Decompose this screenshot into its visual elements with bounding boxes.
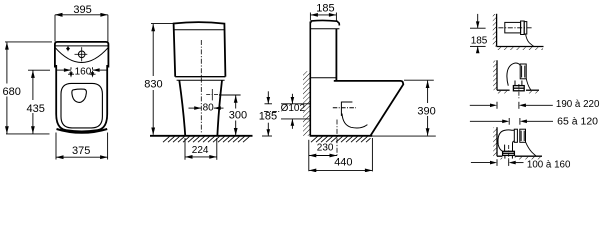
wall (496, 127, 498, 156)
wall + tank back (309, 22, 311, 136)
outlet pipe (498, 21, 533, 46)
svg-text:390: 390 (417, 105, 435, 117)
floor (497, 155, 502, 157)
dim 390 (404, 80, 434, 135)
tank outline (174, 22, 226, 77)
svg-text:395: 395 (73, 4, 91, 16)
svg-text:100 à 160: 100 à 160 (527, 160, 571, 171)
tank bottom shelf (310, 77, 336, 79)
svg-text:230: 230 (317, 143, 334, 154)
svg-text:160: 160 (75, 66, 92, 77)
bowl top + rim + front slope (334, 81, 404, 136)
tank front (335, 29, 337, 81)
svg-text:830: 830 (144, 79, 162, 91)
dim 185 top (310, 13, 336, 21)
lid bottom line (55, 45, 108, 47)
svg-text:80: 80 (203, 102, 215, 113)
dim Ø102 (264, 94, 310, 129)
elbow (498, 129, 537, 158)
dim 300 (219, 95, 241, 135)
drain centerline (336, 120, 338, 156)
hole cross marker (211, 89, 213, 100)
svg-text:375: 375 (72, 145, 90, 157)
bowl outline (56, 65, 107, 131)
dim 224 (185, 138, 217, 160)
elbow connector (507, 63, 531, 91)
svg-text:440: 440 (334, 157, 352, 169)
floor both segments (497, 89, 510, 91)
svg-text:680: 680 (3, 86, 21, 98)
wall (496, 14, 498, 47)
svg-text:435: 435 (27, 103, 45, 115)
dim 185 (470, 14, 486, 51)
bowl bottom thick curve (57, 129, 108, 133)
trap hidden outline (333, 102, 368, 128)
dim 160 (56, 67, 107, 74)
centerline (200, 40, 202, 134)
dim 185 left (262, 91, 272, 136)
tank lid (310, 20, 339, 25)
dim 375 bottom (56, 133, 108, 160)
floor (497, 46, 544, 48)
dim 230 (309, 140, 337, 171)
dim 395 top (55, 15, 108, 42)
dim 100 a 160 (471, 159, 524, 166)
seat inner oval (61, 83, 102, 128)
svg-text:65 à 120: 65 à 120 (557, 116, 598, 127)
floor (310, 135, 373, 137)
dim 65 a 120 (470, 118, 553, 125)
dim 435 (28, 70, 50, 133)
dim 830 (151, 24, 173, 135)
small diamond marker (67, 46, 69, 51)
pedestal (179, 80, 185, 135)
shoulder lines (175, 76, 225, 78)
dim 680 left (5, 42, 52, 134)
dim 80 (189, 107, 202, 109)
svg-text:Ø102: Ø102 (281, 103, 306, 114)
tank outline (55, 42, 109, 68)
wall (496, 60, 498, 90)
dim 190 a 220 (470, 102, 553, 109)
svg-text:185: 185 (471, 35, 488, 46)
svg-text:185: 185 (259, 111, 277, 123)
svg-text:190 à 220: 190 à 220 (556, 99, 600, 110)
tank shoulder arc (55, 47, 108, 62)
dim 440 (309, 138, 373, 171)
lid hole cross (78, 51, 85, 58)
svg-text:185: 185 (316, 3, 334, 15)
floor line + hatch (150, 135, 253, 137)
water blob (72, 89, 87, 102)
svg-text:224: 224 (192, 145, 209, 156)
svg-text:300: 300 (229, 109, 247, 121)
